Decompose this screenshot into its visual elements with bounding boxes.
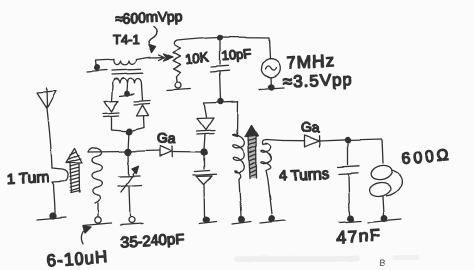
wire node C down to node A2 (128, 132, 129, 152)
ground C3 (339, 216, 361, 223)
wire node A to Ga diode (128, 151, 160, 152)
node B (201, 149, 207, 155)
diode D5 (below node B) (193, 155, 216, 216)
ferrite rod 2 (245, 126, 258, 180)
secondary taps (112, 84, 143, 101)
arrow to 6-10uH label (81, 226, 91, 244)
diode D6 Ga (283, 136, 348, 148)
ground D5 (199, 217, 216, 224)
wire bus at node E (204, 102, 238, 103)
variable capacitor C1 35-240pF (118, 154, 141, 216)
top wire pot to source (178, 37, 270, 40)
diode D1 (left, cathode down) (103, 101, 119, 130)
svg-text:Ga: Ga (157, 131, 176, 146)
AC source V1 (262, 38, 281, 87)
ground R1 (167, 83, 190, 91)
wire Ga diode to node B (172, 151, 204, 154)
inductor L1 6-10uH (88, 147, 102, 203)
svg-text:4 Turns: 4 Turns (278, 165, 329, 185)
ground T2 right (260, 216, 285, 223)
svg-text:35-240pF: 35-240pF (120, 231, 185, 251)
svg-text:47nF: 47nF (336, 226, 382, 247)
svg-text:B: B (379, 258, 385, 268)
node F (345, 137, 350, 142)
svg-text:7MHz: 7MHz (286, 51, 335, 73)
ferrite rod 1 (66, 149, 82, 193)
wire primary to pot wiper with arrow (137, 54, 174, 61)
capacitor C3 47nF (338, 140, 359, 215)
ground phones (368, 216, 401, 223)
ground T4-1 primary (87, 65, 107, 71)
arrow from 600mVpp label to wiper wire (149, 27, 157, 53)
svg-text:≈600mVpp: ≈600mVpp (115, 8, 183, 26)
transformer T2 right winding 4 Turns (261, 140, 283, 215)
svg-text:10pF: 10pF (221, 46, 252, 63)
main wire node A line (88, 151, 128, 154)
transformer T2 left winding (233, 102, 245, 216)
ground L1 (83, 203, 111, 226)
ground T2 left (232, 217, 251, 224)
diode D3 Ga (160, 146, 172, 157)
node E (218, 99, 223, 104)
center tap terminal (120, 91, 134, 96)
diode D4 (cathode down) (196, 103, 215, 149)
scan edge artifacts (234, 255, 420, 268)
antenna (37, 88, 56, 108)
ground antenna (37, 213, 66, 220)
svg-text:6-10uH: 6-10uH (46, 247, 109, 270)
potentiometer R1 10K (173, 40, 181, 82)
svg-text:T4-1: T4-1 (113, 32, 140, 47)
transformer T4-1 secondary winding (113, 78, 142, 86)
node C (126, 129, 132, 135)
wire antenna down (47, 108, 52, 168)
capacitor C2 10pF (211, 37, 229, 100)
wire node F to phones (348, 139, 383, 163)
headphones 600 ohm (368, 163, 401, 215)
ground C1 (120, 217, 143, 225)
coupling loop (1 Turn) (52, 168, 68, 213)
svg-text:≈3.5Vpp: ≈3.5Vpp (282, 70, 353, 91)
wire joining D1 D2 to node C (111, 128, 144, 132)
svg-text:1 Turn: 1 Turn (6, 169, 49, 188)
svg-text:Ga: Ga (301, 120, 320, 135)
node A (125, 149, 131, 155)
diode D2 (right, cathode up) (134, 101, 150, 128)
transformer T4-1 core (112, 69, 143, 74)
transformer T4-1 primary winding (95, 60, 137, 66)
ground V1 (259, 85, 284, 90)
node D (218, 35, 223, 40)
